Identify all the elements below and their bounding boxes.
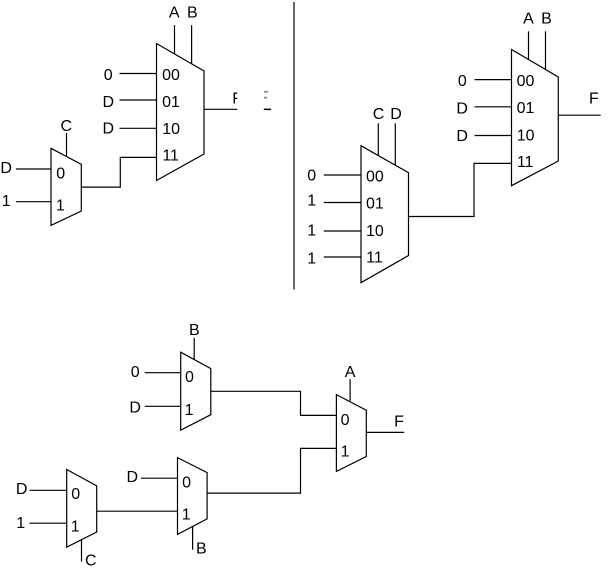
svg-text:1: 1: [307, 250, 316, 267]
wire select B of U1: [191, 25, 193, 64]
artifact fragment near F (black wire stub): [264, 109, 271, 111]
svg-text:B: B: [187, 4, 198, 21]
wire U2 output to U1 input 11: [81, 157, 156, 187]
wire select B of U4: [545, 31, 547, 69]
svg-text:0: 0: [341, 412, 350, 429]
mux U5 (2:1 mux, bottom circuit, top branch, select B): [181, 352, 211, 430]
svg-text:D: D: [16, 481, 28, 498]
svg-text:B: B: [189, 322, 200, 339]
wire input 1 of U5: [145, 405, 181, 407]
wire input 01 of U4: [475, 106, 512, 108]
svg-text:0: 0: [71, 486, 80, 503]
wire input 1 of U2: [16, 201, 51, 203]
svg-text:A: A: [169, 4, 180, 21]
svg-text:0: 0: [56, 166, 65, 183]
svg-text:1: 1: [182, 507, 191, 524]
svg-text:0: 0: [131, 364, 140, 381]
svg-text:10: 10: [162, 121, 180, 138]
mux U3 (4:1 mux, top-right circuit, first stage): [361, 146, 409, 283]
svg-text:F: F: [232, 91, 242, 108]
svg-text:1: 1: [341, 444, 350, 461]
wire input 0 of U2: [16, 168, 51, 170]
svg-text:11: 11: [517, 154, 534, 171]
svg-text:1: 1: [2, 193, 11, 210]
wire input 10 of U1: [120, 127, 157, 129]
wire select A of U8: [349, 379, 351, 401]
svg-text:D: D: [102, 94, 114, 111]
svg-text:C: C: [85, 552, 97, 569]
svg-text:A: A: [345, 364, 356, 381]
svg-text:01: 01: [162, 94, 180, 111]
wire input 0 of U5: [145, 372, 181, 374]
mux U7 (2:1 mux, bottom circuit, lower-middle, select B): [178, 458, 208, 535]
wire output F of U1: [204, 108, 237, 110]
svg-text:00: 00: [366, 169, 384, 186]
svg-text:D: D: [390, 106, 402, 123]
wire input 0 of U7: [141, 477, 178, 479]
svg-text:01: 01: [517, 100, 535, 117]
mux U1 (4:1 mux, top-left circuit): [157, 44, 205, 181]
svg-text:0: 0: [182, 474, 191, 491]
wire U5 output to U8 input 0: [211, 391, 337, 415]
wire select B of U7: [192, 527, 194, 550]
svg-text:01: 01: [366, 196, 384, 213]
wire select B of U5: [193, 338, 195, 360]
svg-text:1: 1: [185, 402, 194, 419]
wire U7 output to U8 input 1: [207, 448, 336, 493]
svg-text:11: 11: [162, 148, 179, 165]
svg-text:10: 10: [366, 223, 384, 240]
wire input 00 of U1: [120, 73, 157, 75]
mux U8 (2:1 mux, bottom circuit, output stage, select A): [336, 395, 366, 472]
wire select A of U4: [528, 31, 530, 59]
wire U3 output to U4 input 11: [409, 163, 512, 216]
mux U4 (4:1 mux, top-right circuit, second stage): [512, 50, 559, 186]
wire output F of U4: [558, 114, 600, 116]
svg-text:1: 1: [307, 192, 316, 209]
svg-text:0: 0: [185, 369, 194, 386]
wire U6 output to U7 input 1: [97, 510, 178, 512]
wire select C of U3: [377, 123, 379, 155]
svg-text:D: D: [456, 128, 468, 145]
svg-text:D: D: [102, 121, 114, 138]
svg-text:1: 1: [71, 519, 80, 536]
wire select A of U1: [174, 25, 176, 54]
wire input 1 of U6: [30, 522, 67, 524]
wire input 0 of U6: [30, 489, 67, 491]
artifact fragment near F (gray bar 2): [264, 97, 267, 99]
svg-text:A: A: [523, 11, 534, 28]
svg-text:F: F: [394, 413, 404, 430]
svg-text:0: 0: [458, 73, 467, 90]
wire input 10 of U3: [324, 230, 361, 232]
svg-text:B: B: [541, 11, 552, 28]
mux U6 (2:1 mux, bottom circuit, lower-left, select C): [67, 470, 97, 548]
svg-text:11: 11: [366, 249, 383, 266]
wire input 00 of U4: [475, 79, 512, 81]
mux U2 (2:1 mux, top-left circuit): [51, 148, 81, 225]
svg-text:B: B: [196, 541, 207, 558]
svg-text:1: 1: [56, 197, 65, 214]
svg-text:F: F: [589, 91, 599, 108]
svg-text:C: C: [61, 118, 73, 135]
divider line between left and right examples: [293, 2, 295, 290]
wire input 00 of U3: [324, 174, 361, 176]
svg-text:0: 0: [307, 168, 316, 185]
svg-text:00: 00: [162, 67, 180, 84]
artifact fragment near F (gray bar 1): [264, 91, 268, 93]
wire output F of U8: [366, 431, 404, 433]
wire input 01 of U1: [120, 99, 157, 101]
svg-text:0: 0: [104, 67, 113, 84]
svg-text:D: D: [126, 469, 138, 486]
svg-text:D: D: [456, 101, 468, 118]
wire input 10 of U4: [475, 135, 512, 137]
wire input 01 of U3: [324, 202, 361, 204]
svg-text:D: D: [0, 160, 12, 177]
svg-text:1: 1: [307, 223, 316, 240]
svg-text:C: C: [373, 106, 385, 123]
wire select C of U2: [66, 133, 68, 157]
svg-text:00: 00: [517, 73, 535, 90]
wire input 11 of U3: [324, 256, 361, 258]
svg-text:1: 1: [16, 515, 25, 532]
wire select D of U3: [394, 123, 396, 165]
svg-text:D: D: [129, 400, 141, 417]
svg-text:10: 10: [517, 127, 535, 144]
wire select C of U6: [81, 540, 83, 562]
